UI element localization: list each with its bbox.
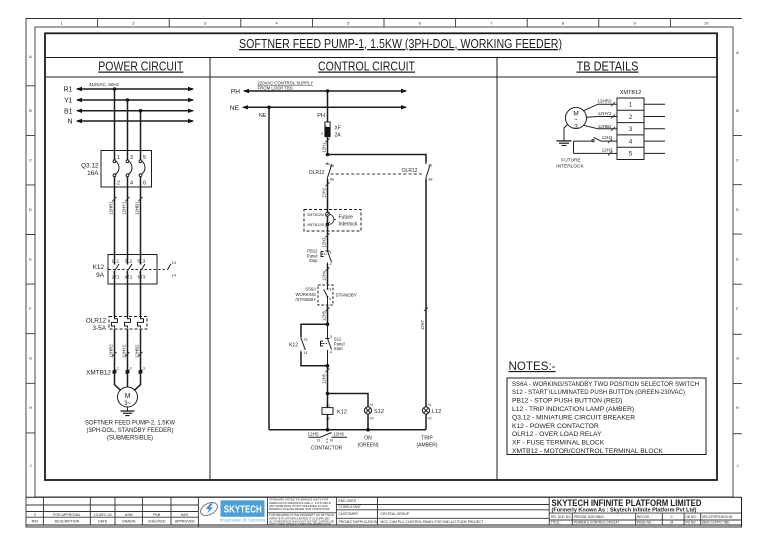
- logo cell divider: [267, 497, 269, 525]
- svg-text:-: -: [381, 505, 382, 509]
- svg-text:XMTB12/5: XMTB12/5: [307, 223, 324, 227]
- svg-text:PKB: PKB: [153, 513, 161, 517]
- breaker pole 1-2: [113, 155, 120, 187]
- svg-text:CONSULTANT: CONSULTANT: [339, 505, 361, 509]
- svg-text:1: 1: [117, 155, 120, 161]
- svg-text:1: 1: [325, 124, 327, 128]
- olr linkage dashed: [331, 173, 423, 175]
- svg-text:Y1: Y1: [64, 98, 73, 105]
- NOTES: [507, 360, 706, 455]
- zone ticks left: [26, 86, 35, 433]
- overload heater elements: [112, 317, 144, 328]
- svg-text:SS6A: SS6A: [305, 287, 316, 292]
- svg-text:6T3: 6T3: [138, 274, 146, 279]
- svg-text:G: G: [29, 356, 32, 361]
- svg-text:S12 - START ILLUMINATED PUSH B: S12 - START ILLUMINATED PUSH BUTTON (GRE…: [512, 389, 685, 396]
- svg-text:Stop: Stop: [309, 258, 318, 263]
- svg-text:X2: X2: [428, 417, 432, 421]
- svg-text:DN NO. :: DN NO. :: [686, 515, 699, 519]
- terminal block XMTB12 body: [617, 98, 644, 160]
- svg-text:CUSTOMER: CUSTOMER: [339, 512, 359, 516]
- svg-text:XMTB12: XMTB12: [620, 90, 642, 96]
- company row fields: [551, 515, 733, 525]
- svg-text:0: 0: [34, 513, 36, 517]
- olr trip contact NC 95-96: [325, 163, 334, 182]
- svg-text:24: 24: [670, 521, 674, 525]
- motor feeder wires: [115, 372, 141, 391]
- svg-text:1L1: 1L1: [112, 259, 120, 264]
- svg-text:~: ~: [574, 117, 578, 124]
- svg-text:DPL/CRSP/16024-05: DPL/CRSP/16024-05: [702, 515, 733, 519]
- svg-text:XF - FUSE TERMINAL BLOCK: XF - FUSE TERMINAL BLOCK: [512, 440, 605, 447]
- svg-text:R/N: R/N: [32, 520, 39, 524]
- svg-text:Start: Start: [334, 346, 344, 351]
- svg-text:XF: XF: [335, 126, 341, 132]
- svg-text:J: J: [30, 463, 32, 468]
- company grid: [549, 513, 741, 525]
- svg-text:98: 98: [428, 178, 432, 182]
- svg-text:12H4: 12H4: [322, 270, 327, 281]
- svg-text:D: D: [736, 207, 739, 212]
- svg-text:9A: 9A: [96, 272, 105, 279]
- svg-text:A1: A1: [326, 403, 330, 407]
- svg-text:3: 3: [143, 367, 145, 371]
- terminal stubs right: [644, 104, 665, 153]
- selector SS6A dashed box: [318, 285, 333, 305]
- svg-text:B1: B1: [64, 108, 73, 115]
- svg-text:CONTROL CIRCUIT: CONTROL CIRCUIT: [318, 60, 415, 74]
- wire branch to trip column: [328, 155, 427, 163]
- node B1 tap: [139, 109, 143, 113]
- selector SS6A contact: [324, 285, 332, 305]
- svg-text:12H5: 12H5: [322, 310, 327, 321]
- breaker Q3.12 box: [101, 151, 152, 188]
- wire 12HR2 tb: [584, 99, 618, 111]
- svg-text:FUTURE: FUTURE: [561, 158, 580, 164]
- svg-text:XMTB12 - MOTOR/CONTROL TERMINA: XMTB12 - MOTOR/CONTROL TERMINAL BLOCK: [512, 448, 663, 455]
- node PH tap: [326, 89, 330, 93]
- zone numbers top: [61, 20, 710, 25]
- svg-text:ON: ON: [364, 436, 372, 442]
- CONTROL: [230, 81, 442, 452]
- svg-text:-: -: [381, 499, 382, 503]
- svg-text:PR02SB-1620-SM02: PR02SB-1620-SM02: [574, 515, 604, 519]
- svg-text:12HR2: 12HR2: [597, 99, 612, 104]
- svg-text:1: 1: [117, 367, 119, 371]
- svg-text:97: 97: [428, 164, 432, 168]
- svg-text:B: B: [29, 108, 32, 113]
- svg-text:1: 1: [330, 251, 332, 255]
- svg-text:SS6A - WORKING/STANDBY TWO POS: SS6A - WORKING/STANDBY TWO POSITION SELE…: [512, 381, 699, 388]
- svg-text:12H2: 12H2: [322, 187, 327, 198]
- svg-text:Q3.12 - MINIATURE CIRCUIT BREA: Q3.12 - MINIATURE CIRCUIT BREAKER: [512, 414, 635, 421]
- svg-text:3: 3: [574, 124, 578, 131]
- svg-text:12HY1: 12HY1: [121, 201, 126, 215]
- svg-text:12H6: 12H6: [333, 432, 344, 437]
- svg-text:DPL DOC NO. :: DPL DOC NO. :: [551, 515, 573, 519]
- notes box: [507, 378, 706, 455]
- svg-text:12H3: 12H3: [602, 148, 613, 153]
- svg-text:(Formerly Known As : Skytech I: (Formerly Known As : Skytech Infinite Pl…: [552, 508, 697, 514]
- title row line: [45, 57, 717, 59]
- svg-text:DB20-10T/PO-TBD: DB20-10T/PO-TBD: [702, 521, 730, 525]
- wire NE bottom rail: [269, 429, 426, 431]
- future interlock link vertical: [573, 141, 575, 153]
- svg-text:PB12 - STOP PUSH BUTTON (RED): PB12 - STOP PUSH BUTTON (RED): [512, 398, 622, 405]
- svg-text:5L3: 5L3: [138, 259, 146, 264]
- svg-text:E: E: [29, 257, 32, 262]
- svg-text:C: C: [736, 158, 739, 163]
- header row line: [45, 76, 717, 78]
- svg-text:4T2: 4T2: [125, 274, 133, 279]
- svg-text:2: 2: [130, 367, 132, 371]
- svg-text:12HB2: 12HB2: [598, 124, 612, 129]
- svg-text:16A: 16A: [87, 170, 99, 177]
- svg-text:OLR12: OLR12: [86, 318, 107, 325]
- svg-text:Interlock: Interlock: [339, 221, 358, 227]
- fields grid: [336, 497, 549, 525]
- svg-text:14: 14: [172, 274, 176, 278]
- contactor K12 box: [108, 255, 157, 285]
- svg-text:3~: 3~: [124, 401, 131, 407]
- svg-text:CRYSTAL GROUP: CRYSTAL GROUP: [381, 512, 410, 516]
- svg-text:K12: K12: [289, 343, 298, 349]
- future interlock terminals: [326, 210, 330, 232]
- future interlock contact row4: [574, 135, 618, 143]
- svg-text:PROJECT/APPLICATION: PROJECT/APPLICATION: [339, 520, 378, 524]
- node seal-in bottom: [326, 364, 330, 368]
- wire 12HY2: [121, 284, 129, 370]
- svg-text:PAGE NO. :: PAGE NO. :: [637, 521, 654, 525]
- svg-text:C: C: [29, 158, 32, 163]
- svg-text:OLR12: OLR12: [309, 170, 325, 176]
- svg-text:APPROVED: APPROVED: [175, 520, 195, 524]
- svg-text:2: 2: [321, 132, 323, 136]
- svg-text:S12: S12: [374, 409, 384, 415]
- zone letters left: [29, 54, 32, 468]
- svg-text:95: 95: [330, 164, 334, 168]
- node R1 tap: [113, 87, 117, 91]
- wire 12H4: [322, 264, 330, 285]
- svg-text:N: N: [67, 119, 72, 126]
- svg-text:WORKING: WORKING: [296, 292, 316, 297]
- wire B phase drop: [140, 111, 142, 160]
- svg-text:3: 3: [330, 335, 332, 339]
- bus N: [67, 119, 194, 126]
- motor M tb: [566, 108, 587, 131]
- svg-text:4: 4: [330, 351, 332, 355]
- terminal XMTB12-2: [125, 367, 132, 375]
- contactor aux contact 13-14: [168, 261, 177, 278]
- node lamp branch: [326, 392, 330, 396]
- svg-text:12H7: 12H7: [420, 319, 425, 330]
- svg-text:DRAWN: DRAWN: [122, 520, 136, 524]
- svg-text:J: J: [737, 463, 739, 468]
- svg-text:2: 2: [330, 262, 332, 266]
- svg-text:L12 - TRIP INDICATION LAMP (AM: L12 - TRIP INDICATION LAMP (AMBER): [512, 406, 634, 413]
- pushbutton S12 start: [321, 324, 332, 366]
- svg-text:0: 0: [671, 515, 673, 519]
- svg-text:M: M: [125, 393, 131, 400]
- svg-text:3L2: 3L2: [125, 259, 133, 264]
- svg-text:2A: 2A: [335, 133, 342, 139]
- disclaimer divider: [268, 497, 337, 525]
- svg-text:FROM LOOP TBS: FROM LOOP TBS: [258, 85, 293, 90]
- bus NE: [230, 105, 407, 112]
- svg-text:NE: NE: [259, 113, 267, 119]
- wire seal-in branch top: [301, 324, 328, 337]
- logo skytech: [198, 500, 265, 522]
- node branch trip: [326, 153, 330, 157]
- disclaimer block: [269, 498, 334, 527]
- svg-text:B&S: B&S: [181, 513, 189, 517]
- svg-text:MCC CUM PLC CONTROL PANEL FOR: MCC CUM PLC CONTROL PANEL FOR DND ALTITU…: [381, 520, 484, 524]
- svg-text:12HY2: 12HY2: [598, 111, 612, 116]
- node rail K12: [326, 428, 330, 432]
- svg-text:L12: L12: [432, 409, 441, 415]
- svg-text:A: A: [736, 50, 739, 55]
- bus B1: [64, 108, 194, 115]
- svg-text:5: 5: [143, 155, 146, 161]
- overload OLR12 dashed box: [109, 317, 147, 330]
- svg-text:/STANDBY: /STANDBY: [295, 297, 316, 302]
- svg-text:DISCLOSED WITHOUT WRITTEN PERM: DISCLOSED WITHOUT WRITTEN PERMISSION: [269, 522, 331, 526]
- fuse XF: [321, 122, 330, 137]
- coil K12: [322, 394, 333, 430]
- svg-text:6: 6: [143, 181, 146, 187]
- svg-text:DESCRIPTION: DESCRIPTION: [55, 520, 80, 524]
- svg-text:K12 - POWER CONTACTOR: K12 - POWER CONTACTOR: [512, 423, 599, 430]
- svg-text:FOR APPROVAL: FOR APPROVAL: [53, 513, 81, 517]
- svg-text:OLR12: OLR12: [402, 168, 418, 174]
- wire R phase drop: [114, 89, 116, 160]
- bus R1: [64, 87, 194, 94]
- svg-text:3: 3: [130, 155, 133, 161]
- ground motor: [121, 407, 135, 416]
- svg-text:INTERLOCK: INTERLOCK: [556, 164, 584, 170]
- svg-text:STANDBY: STANDBY: [336, 292, 357, 297]
- svg-text:12HB1: 12HB1: [134, 201, 139, 215]
- svg-text:2T1: 2T1: [112, 274, 120, 279]
- wire seal-in branch bottom: [301, 352, 328, 366]
- svg-text:XMTB12: XMTB12: [86, 370, 111, 377]
- svg-text:12H6: 12H6: [322, 373, 327, 384]
- wire 12HB2: [134, 284, 142, 370]
- wire 12HR2: [108, 284, 116, 370]
- svg-text:12HR2: 12HR2: [108, 344, 113, 358]
- svg-text:POWER CIRCUIT: POWER CIRCUIT: [98, 60, 183, 74]
- svg-text:PO NO. :: PO NO. :: [686, 521, 699, 525]
- terminal XMTB12-1: [112, 367, 119, 375]
- svg-text:12H2: 12H2: [602, 135, 613, 140]
- svg-text:END USER: END USER: [339, 499, 357, 503]
- wire 12H3: [322, 231, 330, 250]
- svg-text:Q3.12: Q3.12: [81, 163, 99, 170]
- fields values: [381, 499, 484, 524]
- svg-text:REV NO. :: REV NO. :: [637, 515, 652, 519]
- svg-text:K12: K12: [93, 264, 105, 271]
- wire 12H6: [322, 366, 330, 394]
- wire NE vertical: [268, 107, 270, 429]
- svg-text:D: D: [29, 207, 32, 212]
- wire 12HB2 tb: [584, 124, 618, 131]
- svg-text:13-DEC-24: 13-DEC-24: [94, 513, 112, 517]
- future interlock dashed box: [304, 210, 361, 232]
- ground tb: [557, 125, 572, 146]
- breaker pole 5-6: [139, 155, 146, 187]
- svg-text:X1: X1: [428, 403, 432, 407]
- svg-text:SKYTECH: SKYTECH: [224, 505, 262, 516]
- svg-text:NE: NE: [230, 105, 240, 112]
- svg-text:12HR1: 12HR1: [108, 201, 113, 215]
- bus PH: [231, 89, 407, 96]
- future interlock wire row5: [574, 148, 618, 156]
- svg-text:Future: Future: [339, 214, 354, 220]
- wire PH to fuse: [327, 91, 329, 122]
- svg-text:NOTES:-: NOTES:-: [509, 360, 556, 373]
- svg-text:(3PH-DOL, STANDBY FEEDER): (3PH-DOL, STANDBY FEEDER): [87, 427, 174, 434]
- svg-text:12H5: 12H5: [308, 432, 319, 437]
- svg-text:ASM: ASM: [125, 513, 133, 517]
- svg-text:SKYTECH INFINITE PLATFORM LIMI: SKYTECH INFINITE PLATFORM LIMITED: [552, 498, 702, 508]
- svg-text:TRIP: TRIP: [421, 436, 433, 442]
- svg-text:3: 3: [329, 288, 331, 292]
- fields labels: [339, 499, 378, 524]
- svg-text:96: 96: [330, 178, 334, 182]
- contactor annotation 12H5 12H6: [308, 432, 347, 443]
- svg-text:X1: X1: [370, 403, 374, 407]
- revision table grid: [26, 497, 198, 527]
- svg-text:10: 10: [704, 20, 709, 25]
- wire 12H5: [322, 305, 330, 324]
- contact K12 aux 13-14: [301, 337, 308, 355]
- svg-text:PH: PH: [317, 113, 325, 119]
- svg-text:(GREEN): (GREEN): [357, 443, 378, 449]
- zone letters right: [736, 50, 739, 468]
- svg-text:12H3: 12H3: [322, 237, 327, 248]
- svg-text:TB DETAILS: TB DETAILS: [577, 60, 639, 74]
- wire 12H7: [420, 179, 428, 407]
- svg-text:G: G: [736, 356, 739, 361]
- svg-text:X2: X2: [370, 417, 374, 421]
- terminal XMTB12-3: [138, 367, 145, 375]
- column divider power/control: [209, 58, 211, 481]
- svg-text:PH: PH: [231, 89, 240, 96]
- TITLEBLOCK: [26, 497, 742, 527]
- notes lines: [512, 381, 699, 455]
- svg-text:H: H: [736, 405, 739, 410]
- svg-text:TITLE :: TITLE :: [551, 521, 562, 525]
- node rail S12: [366, 428, 370, 432]
- svg-text:(AMBER): (AMBER): [416, 443, 437, 449]
- svg-text:E: E: [736, 257, 739, 262]
- contactor linkage dashed: [109, 269, 168, 271]
- titleblock outline: [26, 497, 742, 527]
- revision row data: [32, 513, 195, 524]
- olr alarm contact NO 97-98: [426, 163, 433, 182]
- svg-text:2: 2: [117, 181, 120, 187]
- wire 12HY2 tb: [587, 111, 618, 119]
- pushbutton PB12 stop: [321, 250, 332, 267]
- svg-text:4: 4: [130, 181, 133, 187]
- svg-text:12H1: 12H1: [322, 142, 327, 153]
- wire 12HB1: [134, 177, 142, 255]
- svg-text:(SUBMERSIBLE): (SUBMERSIBLE): [107, 435, 153, 442]
- breaker pole 3-4: [126, 155, 133, 187]
- zone ticks right: [733, 135, 742, 433]
- lamp S12: [364, 403, 373, 430]
- svg-text:DATE: DATE: [98, 520, 108, 524]
- svg-text:SOFTNER FEED PUMP-1, 1.5KW (3P: SOFTNER FEED PUMP-1, 1.5KW (3PH-DOL, WOR…: [239, 36, 562, 51]
- wire to lamp S12: [328, 394, 369, 408]
- svg-text:13: 13: [317, 438, 321, 442]
- svg-text:14: 14: [303, 351, 307, 355]
- zone ticks top: [98, 19, 671, 28]
- border main frame: [45, 33, 717, 480]
- TBDET: [556, 90, 665, 170]
- svg-text:XMTB12/4: XMTB12/4: [307, 213, 324, 217]
- svg-text:14: 14: [330, 438, 334, 442]
- svg-text:12HB2: 12HB2: [134, 344, 139, 358]
- TITLES: [45, 36, 717, 480]
- svg-text:CONTACTOR: CONTACTOR: [311, 446, 343, 452]
- wire 12HY1: [121, 177, 129, 255]
- POWER: [64, 82, 194, 442]
- svg-text:CHECKED: CHECKED: [148, 520, 166, 524]
- wire 12H1: [322, 137, 330, 155]
- svg-text:4: 4: [329, 297, 331, 301]
- svg-text:B: B: [736, 108, 739, 113]
- future interlock brace: [330, 214, 336, 224]
- svg-text:13: 13: [303, 338, 307, 342]
- motor M: [118, 387, 138, 407]
- node seal-in top: [326, 323, 330, 327]
- lamp L12: [422, 403, 431, 430]
- svg-text:3-5A: 3-5A: [93, 325, 107, 332]
- svg-text:12HY2: 12HY2: [121, 344, 126, 358]
- svg-text:DRAWING PLEASE REFER SITE COND: DRAWING PLEASE REFER SITE CONDITIONS: [269, 507, 330, 511]
- column divider control/tb: [496, 58, 498, 481]
- node NE tap: [267, 106, 271, 110]
- node Y1 tap: [126, 98, 130, 102]
- svg-text:SOFTNER FEED PUMP-2, 1.5KW: SOFTNER FEED PUMP-2, 1.5KW: [85, 420, 176, 427]
- svg-text:A: A: [29, 54, 32, 59]
- bus Y1: [64, 98, 194, 105]
- contactor pole blades: [114, 264, 146, 273]
- wire 12HR1: [108, 177, 116, 255]
- wire 12H2: [322, 179, 330, 210]
- border inner margin: [35, 27, 733, 497]
- svg-text:Imagination @ Solutions: Imagination @ Solutions: [220, 517, 265, 522]
- svg-text:K12: K12: [337, 410, 347, 416]
- svg-text:13: 13: [172, 261, 176, 265]
- svg-text:415VAC, 50Hz: 415VAC, 50Hz: [89, 82, 120, 87]
- wire Y phase drop: [127, 100, 129, 160]
- svg-text:OLR12 - OVER LOAD RELAY: OLR12 - OVER LOAD RELAY: [512, 431, 602, 438]
- svg-text:R1: R1: [64, 87, 73, 94]
- svg-text:POWER & CONTROL CIRCUIT: POWER & CONTROL CIRCUIT: [574, 521, 619, 525]
- svg-text:H: H: [29, 405, 32, 410]
